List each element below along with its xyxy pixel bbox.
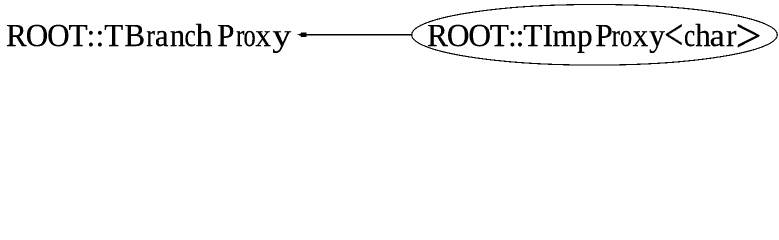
wire: inheritance edge line [306,34,413,36]
node label ROOT::TBranchProxy (base class) [7,24,291,53]
node label ROOT::TImpProxy<char> [428,24,759,53]
arrowhead pointing left at base class [297,32,307,37]
node ellipse ROOT::TImpProxy<char> (derived class) [412,5,778,66]
